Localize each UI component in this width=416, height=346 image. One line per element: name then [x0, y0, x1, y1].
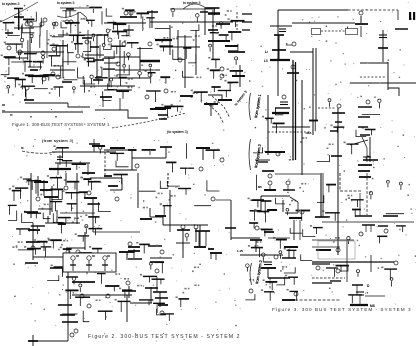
tie-line wire: [206, 102, 224, 124]
value label: [208, 57, 210, 59]
bus S1: [155, 39, 172, 41]
wire: [83, 311, 89, 322]
wire: [150, 257, 172, 259]
value label: [280, 270, 282, 272]
wire: [2, 111, 83, 113]
generator S1: [42, 77, 46, 81]
bus S2t: [142, 149, 156, 151]
value label: [230, 10, 232, 12]
wire: [59, 155, 61, 165]
wire: [14, 27, 34, 29]
bus S3e: [290, 290, 299, 292]
bus S1: [23, 18, 34, 20]
wire: [126, 30, 128, 37]
value label: [80, 177, 82, 179]
bus S3: [282, 299, 295, 301]
generator S2: [155, 269, 159, 273]
value label: [214, 101, 216, 103]
wire: [354, 210, 356, 217]
wire: [5, 23, 7, 31]
bus S1: [54, 86, 64, 88]
wire: [365, 225, 367, 232]
wire: [20, 188, 22, 199]
generator S3b: [378, 99, 381, 102]
bus S3c: [287, 249, 297, 251]
bus S2l: [79, 191, 88, 193]
generator S3f: [390, 278, 393, 281]
bus S3: [258, 161, 268, 163]
generator S1: [129, 11, 133, 15]
wire: [171, 162, 173, 172]
wire: [170, 8, 212, 10]
generator S1: [18, 52, 21, 55]
generator S3: [274, 255, 278, 259]
bus S1: [120, 16, 137, 18]
generator S1: [29, 22, 33, 26]
bus S2b: [118, 300, 131, 302]
bus S2l: [41, 246, 52, 248]
bus S3: [358, 116, 370, 118]
wire: [91, 79, 93, 84]
bus S2: [44, 196, 58, 198]
value label: [345, 199, 347, 201]
wire: [295, 62, 297, 160]
value label: [81, 18, 83, 20]
wire: [96, 67, 102, 77]
wire: [149, 18, 151, 28]
wire: [60, 224, 62, 233]
generator S3: [337, 104, 341, 108]
value label: [128, 87, 130, 89]
wire: [293, 250, 295, 258]
wire: [264, 261, 272, 263]
value label: [60, 247, 62, 249]
wire: [34, 88, 48, 90]
generator S2: [36, 197, 40, 201]
wire: [43, 180, 45, 196]
wire: [53, 26, 55, 29]
bus S1: [218, 99, 232, 101]
bus S2: [128, 246, 140, 248]
wire: [362, 113, 380, 115]
wire: [35, 179, 37, 193]
wire: [41, 75, 43, 84]
wire: [71, 193, 73, 200]
bus S1: [208, 29, 218, 31]
bus S1: [62, 81, 72, 83]
value label: [158, 193, 160, 195]
bus S3: [265, 151, 285, 153]
value label: [225, 14, 227, 16]
substation outline: [318, 241, 355, 259]
generator S1: [122, 42, 126, 46]
wire: [91, 20, 93, 27]
value label: [21, 51, 23, 53]
wire: [202, 148, 204, 160]
value label: [78, 217, 80, 219]
brace: [250, 263, 252, 285]
bus S1: [7, 77, 19, 79]
wire: [39, 62, 41, 70]
bus S1e: [227, 81, 238, 83]
value label: [212, 105, 214, 107]
wire: [370, 195, 372, 199]
bus S2l: [88, 181, 101, 183]
bus S2: [177, 229, 190, 231]
wire: [92, 8, 94, 13]
wire: [235, 71, 237, 77]
value label: [66, 33, 68, 35]
bus S1r: [183, 47, 191, 49]
wire: [91, 182, 93, 191]
bus S2b: [152, 278, 165, 280]
wire: [328, 185, 330, 193]
bus S2l: [8, 204, 17, 206]
bus S2l: [16, 228, 30, 230]
value label: [198, 285, 200, 287]
wire: [104, 261, 106, 272]
generator S3: [384, 229, 388, 233]
value label: [292, 159, 294, 161]
generator S3d: [347, 236, 350, 239]
wire: [276, 198, 286, 204]
value label: [347, 195, 349, 197]
generator S1: [40, 22, 44, 26]
value label: [51, 88, 53, 90]
bus S3: [360, 134, 370, 136]
bus S2t: [110, 152, 124, 154]
value label: [182, 292, 184, 294]
wire: [239, 65, 241, 87]
wire: [279, 240, 281, 249]
value label: [71, 41, 73, 43]
wire: [312, 48, 314, 135]
wire: [117, 65, 130, 75]
wire: [346, 240, 348, 282]
bus S3d: [352, 209, 361, 211]
bus S1: [74, 43, 83, 45]
value label: [122, 8, 124, 10]
wire: [322, 221, 414, 223]
wire: [351, 144, 353, 154]
wire: [118, 32, 120, 40]
wire: [271, 282, 273, 290]
bus S1: [218, 99, 232, 101]
wire: [75, 44, 77, 50]
value label: [94, 86, 96, 88]
bus S2b: [143, 275, 157, 277]
generator S1r: [149, 64, 152, 67]
bus S1e: [210, 32, 219, 34]
wire: [133, 249, 135, 258]
wire: [143, 244, 145, 253]
wire: [365, 295, 385, 297]
wire: [24, 86, 26, 97]
wire: [130, 10, 132, 17]
bus S1e: [231, 20, 245, 22]
bus S1: [155, 107, 171, 109]
wire: [277, 10, 279, 96]
wire: [285, 212, 298, 214]
generator S1: [69, 20, 73, 24]
bus S2: [82, 172, 95, 174]
scan noise speckle: [114, 75, 115, 76]
svg-text:Figure 3. 300 BUS TEST SYSTEM: Figure 3. 300 BUS TEST SYSTEM - SYSTEM 3: [272, 307, 412, 312]
bus S3: [289, 217, 302, 219]
wire: [235, 61, 237, 65]
wire: [356, 294, 364, 296]
generator S3: [359, 232, 363, 236]
bus S1: [140, 60, 160, 62]
bus S1b: [174, 105, 184, 107]
generator S1: [127, 53, 131, 57]
bus S3c: [261, 229, 273, 231]
value label: [88, 90, 90, 92]
bus S3: [274, 34, 284, 36]
wire: [397, 10, 399, 20]
wire: [160, 279, 162, 284]
bus S1: [24, 53, 37, 55]
generator S3c: [262, 253, 266, 257]
wire: [104, 169, 137, 171]
wire: [127, 57, 129, 61]
value label: [34, 239, 36, 241]
bus S3: [287, 72, 299, 74]
wire: [275, 173, 320, 175]
bus S3f: [348, 294, 362, 296]
wire: [167, 173, 169, 189]
bus S2: [26, 241, 40, 243]
bus S2l: [78, 252, 92, 254]
bus S1e: [230, 70, 243, 72]
wire: [215, 253, 217, 260]
wire: [212, 8, 214, 60]
value label: [147, 60, 149, 62]
bus S1: [225, 45, 238, 47]
wire: [101, 11, 103, 24]
wire: [231, 237, 260, 239]
value label: [141, 64, 143, 66]
generator S1e: [209, 44, 212, 47]
generator S1: [90, 75, 93, 78]
generator S1: [102, 44, 105, 47]
wire: [280, 104, 288, 106]
bus S2: [210, 252, 222, 254]
generator S1: [42, 56, 45, 59]
wire: [185, 189, 187, 195]
bus S2l: [27, 212, 41, 214]
value label: [327, 148, 329, 150]
wire: [34, 249, 36, 255]
wire: [13, 191, 15, 201]
wire: [24, 62, 26, 72]
bus under to-system-3 label: [66, 8, 74, 10]
generator S1: [18, 50, 22, 54]
wire: [121, 178, 123, 190]
wire: [182, 243, 184, 258]
generator S1: [148, 42, 152, 46]
bus S1top2: [89, 7, 102, 9]
value label: [126, 82, 128, 84]
bus S2: [196, 147, 210, 149]
bus S3e: [266, 281, 278, 283]
value label: [24, 246, 26, 248]
wire: [159, 292, 161, 307]
svg-text:(to system 3): (to system 3): [167, 130, 188, 134]
wire: [278, 50, 280, 60]
generator S3: [300, 210, 304, 214]
wire: [173, 49, 186, 59]
value label: [58, 65, 60, 67]
wire: [312, 246, 340, 248]
wire: [99, 150, 101, 154]
value label: [254, 245, 256, 247]
wire: [254, 211, 256, 221]
wire: [123, 68, 125, 73]
wire: [360, 26, 362, 37]
wire: [52, 240, 54, 248]
bus S3e: [288, 276, 298, 278]
wire: [320, 173, 322, 217]
generator S1: [123, 65, 126, 68]
bus S1 tie: [242, 29, 250, 31]
value label: [227, 68, 229, 70]
value label: [124, 40, 126, 42]
bus under to-system-3 label: [14, 8, 23, 10]
wire: [18, 249, 32, 251]
wire: [167, 106, 169, 116]
bus S2b: [155, 261, 164, 263]
wire: [44, 247, 46, 257]
value label: [86, 5, 88, 7]
bus S3c: [249, 222, 258, 224]
generator S1: [41, 51, 45, 55]
wire: [108, 69, 110, 80]
bus S2: [155, 297, 168, 299]
value label: [228, 82, 230, 84]
bus S1: [48, 55, 60, 57]
value label: [207, 68, 209, 70]
value label: [90, 86, 92, 88]
wire: [88, 261, 90, 272]
wire: [55, 202, 57, 212]
value label: [1, 55, 3, 57]
generator S3d: [399, 182, 402, 185]
value label: [260, 241, 262, 243]
bus S1: [95, 77, 108, 79]
wire: [169, 190, 171, 232]
value label: [47, 204, 49, 206]
bus S2: [128, 258, 142, 260]
bus S2t: [56, 147, 68, 149]
wire: [62, 148, 64, 158]
value label: [161, 193, 163, 195]
wire: [261, 195, 290, 197]
wire: [176, 106, 178, 111]
value label: [163, 37, 165, 39]
wire: [382, 30, 384, 62]
svg-text:to system 3: to system 3: [2, 2, 19, 6]
value label: [137, 285, 139, 287]
value label: [55, 222, 57, 224]
bus S2: [148, 245, 162, 247]
wire: [359, 193, 361, 216]
value label: [198, 35, 200, 37]
wire: [391, 281, 393, 286]
bus S3: [350, 304, 368, 306]
wire: [213, 70, 215, 78]
generator S1e: [235, 57, 238, 60]
wire: [139, 76, 141, 79]
wire: [78, 67, 85, 78]
wire: [348, 27, 356, 33]
wire: [360, 62, 388, 64]
wire: [66, 247, 85, 249]
wire: [363, 159, 371, 161]
wire: [301, 80, 303, 175]
wire: [165, 147, 167, 158]
bus S1e: [205, 7, 220, 9]
bus S1: [86, 19, 95, 21]
wire: [333, 268, 335, 277]
wire: [371, 130, 373, 136]
wire: [65, 173, 67, 185]
bus S2t: [180, 167, 194, 169]
value label: [100, 67, 102, 69]
generator S1: [65, 20, 69, 24]
wire: [329, 102, 331, 107]
bus S2l: [50, 188, 63, 190]
wire: [65, 218, 67, 224]
wire: [260, 196, 262, 210]
value label: [51, 265, 53, 267]
bus S2l: [23, 178, 32, 180]
bus S1: [5, 32, 13, 34]
generator S3: [291, 65, 295, 69]
wire: [182, 228, 184, 250]
bus S1e: [211, 86, 220, 88]
bus S3: [284, 246, 298, 248]
wire: [160, 181, 168, 189]
value label: [20, 86, 22, 88]
generator S2: [76, 250, 80, 254]
bus S3: [275, 107, 290, 109]
generator S2 plant: [71, 256, 75, 260]
wire: [126, 252, 128, 260]
value label: [188, 288, 190, 290]
bus S1: [159, 118, 167, 120]
bus S2l: [27, 180, 42, 182]
wire: [379, 37, 387, 39]
wire: [177, 36, 192, 38]
value label: [49, 92, 51, 94]
bus S1: [97, 34, 109, 36]
value label: [196, 77, 198, 79]
generator S1: [220, 67, 224, 71]
value label: [302, 137, 304, 139]
bus S3a: [273, 122, 285, 124]
value label: [87, 203, 89, 205]
value label: [381, 267, 383, 269]
wire: [340, 266, 342, 272]
wire: [56, 210, 58, 223]
bus S2: [108, 185, 118, 187]
value label: [227, 10, 229, 12]
wire: [387, 62, 389, 90]
wire: [270, 118, 272, 123]
bus S1: [216, 23, 230, 25]
wire: [62, 61, 76, 63]
